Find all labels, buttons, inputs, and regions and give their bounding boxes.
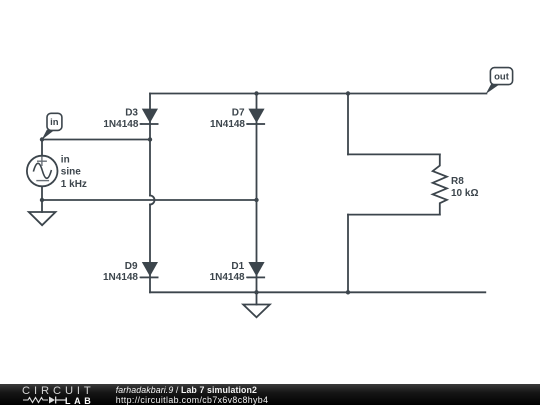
svg-text:in: in (61, 155, 70, 166)
wire resistor bottom horizontal (348, 214, 440, 216)
svg-text:out: out (494, 71, 510, 82)
voltage source V1 circle (27, 156, 58, 187)
wire hop over node wire (150, 196, 155, 205)
wire D7/D1 branch vertical (256, 94, 258, 293)
footer url line (116, 395, 269, 405)
svg-text:1 kHz: 1 kHz (61, 179, 87, 190)
diode D7 (246, 109, 265, 125)
voltage source V1 plus sign (38, 157, 47, 165)
footer attribution bar (0, 384, 540, 405)
flag in box (47, 113, 62, 130)
diode D1 (246, 262, 265, 278)
ground (source) (29, 212, 56, 225)
footer title line (116, 385, 257, 395)
svg-text:sine: sine (61, 167, 81, 178)
svg-text:D7: D7 (232, 108, 245, 119)
resistor R8 (433, 154, 447, 214)
node dot D7 top (254, 91, 258, 95)
voltage source V1 sine wave (34, 163, 52, 178)
wire input node horizontal (42, 139, 150, 141)
svg-text:1N4148: 1N4148 (103, 119, 138, 130)
svg-text:1N4148: 1N4148 (103, 272, 138, 283)
wire resistor top horizontal (348, 153, 440, 155)
node dot ground rail (254, 290, 258, 294)
wire source bottom lead (41, 186, 43, 212)
svg-text:R8: R8 (451, 176, 464, 187)
wire bottom rail (150, 291, 485, 293)
node dot resistor bottom rail (346, 290, 350, 294)
node dot D3 anode (148, 137, 152, 141)
CircuitLab logo schematic glyph (22, 395, 68, 405)
voltage source V1 minus sign (37, 180, 48, 182)
svg-text:10 kΩ: 10 kΩ (451, 188, 478, 199)
diode D3 (140, 109, 159, 125)
wire right branch top vertical (347, 94, 349, 155)
diode D9 (140, 262, 159, 278)
node dot out branch (346, 91, 350, 95)
wire top rail (150, 93, 486, 95)
CircuitLab logo wordmark LAB (65, 396, 94, 405)
svg-text:1N4148: 1N4148 (210, 119, 245, 130)
node dot input (40, 137, 44, 141)
CircuitLab logo wordmark CIRCUIT (22, 385, 95, 397)
flag in tail (42, 130, 55, 140)
wire D3 branch vertical (top) (149, 94, 151, 196)
wire D1 ground stub (256, 292, 258, 304)
wire D9 branch vertical (bottom) (149, 205, 151, 293)
node dot D7 bottom (254, 198, 258, 202)
svg-text:in: in (50, 117, 59, 128)
svg-text:D3: D3 (125, 108, 138, 119)
wire source-to-diodes horizontal (42, 199, 257, 201)
flag out tail (486, 84, 500, 94)
svg-text:D1: D1 (231, 261, 244, 272)
ground (output) (243, 305, 270, 318)
flag out box (490, 68, 512, 85)
node dot source bottom (40, 198, 44, 202)
wire source top lead (41, 140, 43, 156)
svg-text:1N4148: 1N4148 (210, 272, 245, 283)
svg-text:D9: D9 (125, 261, 138, 272)
wire right branch bottom vertical (347, 215, 349, 293)
